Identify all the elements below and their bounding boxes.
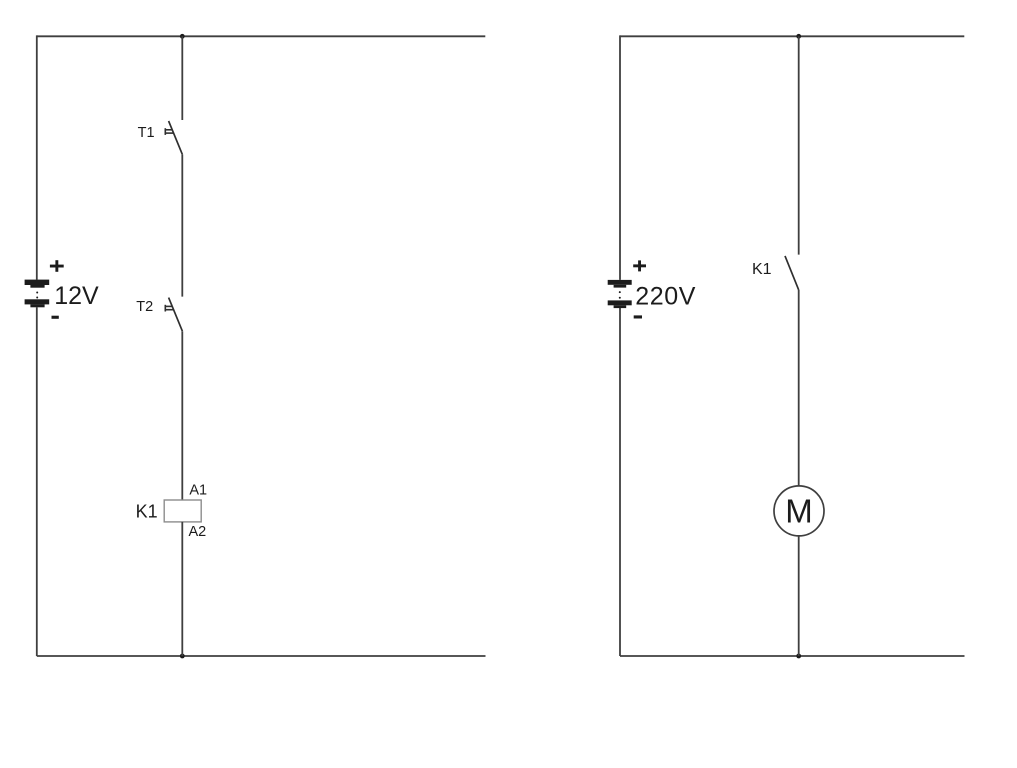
- relay coil K1: [164, 500, 201, 522]
- node: top junction of control branch: [180, 34, 185, 39]
- node: bottom junction of motor branch: [796, 654, 801, 659]
- battery BT1 plus sign: [50, 260, 64, 272]
- wire: coil K1 to bottom bus: [181, 522, 183, 656]
- svg-text:K1: K1: [752, 261, 772, 278]
- switch T1 actuator bracket: [165, 128, 173, 135]
- svg-text:T1: T1: [138, 125, 155, 141]
- wire: between T1 and T2: [181, 155, 183, 297]
- svg-text:A2: A2: [189, 524, 207, 540]
- svg-text:220V: 220V: [635, 282, 696, 310]
- wire: from top bus to contact K1: [798, 36, 800, 254]
- node: bottom junction of control branch: [180, 654, 185, 659]
- wire: left circuit left vertical (lower, below battery): [36, 307, 38, 656]
- svg-text:T2: T2: [136, 299, 153, 315]
- svg-text:M: M: [785, 493, 813, 530]
- svg-text:12V: 12V: [54, 282, 99, 310]
- battery BT2 minus sign: [634, 315, 642, 318]
- wire: left circuit top bus: [37, 35, 486, 37]
- wire: between T2 and relay coil K1: [181, 331, 183, 500]
- wire: right circuit top bus: [620, 35, 964, 37]
- battery BT1 minus sign: [52, 316, 59, 319]
- battery BT2 220V: [608, 280, 632, 308]
- battery BT1 12V: [25, 280, 50, 308]
- wire: contact K1 to motor M: [798, 290, 800, 486]
- switch T2 actuator bracket: [165, 305, 173, 312]
- switch T1 (NO pushbutton, lever): [169, 121, 183, 155]
- node: top junction of motor branch: [796, 34, 801, 39]
- wire: branch from top bus to T1: [181, 36, 183, 120]
- svg-text:K1: K1: [136, 502, 158, 522]
- wire: right circuit left vertical (upper, above battery): [619, 35, 621, 280]
- wire: right circuit left vertical (lower, below battery): [619, 308, 621, 656]
- wire: right circuit bottom bus: [620, 655, 965, 657]
- battery BT2 plus sign: [633, 260, 646, 271]
- svg-text:A1: A1: [189, 483, 207, 499]
- wire: motor M to bottom bus: [798, 536, 800, 656]
- relay contact K1 (NO, lever): [785, 256, 799, 290]
- wire: left circuit bottom bus: [37, 655, 486, 657]
- switch T2 (NO pushbutton, lever): [169, 298, 183, 332]
- wire: left circuit left vertical (upper, above battery): [36, 35, 38, 279]
- motor M1 circle: [774, 486, 824, 536]
